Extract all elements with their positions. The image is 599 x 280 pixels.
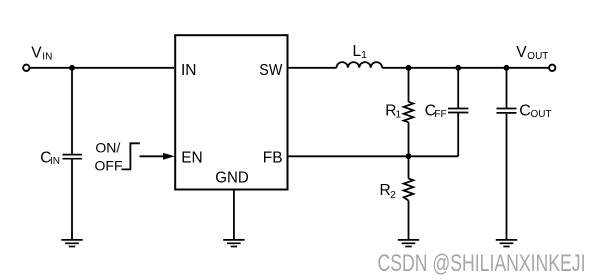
svg-text:C: C — [519, 103, 531, 120]
svg-text:OUT: OUT — [527, 51, 548, 62]
svg-text:IN: IN — [50, 156, 60, 167]
svg-text:OFF: OFF — [95, 157, 123, 173]
svg-text:L: L — [353, 43, 362, 60]
svg-text:CSDN @SHILIANXINKEJI: CSDN @SHILIANXINKEJI — [378, 250, 586, 277]
svg-text:FB: FB — [263, 150, 283, 167]
svg-text:GND: GND — [215, 169, 249, 186]
svg-text:1: 1 — [396, 110, 402, 121]
svg-text:ON/: ON/ — [95, 140, 120, 156]
svg-text:SW: SW — [259, 62, 282, 79]
svg-text:R: R — [380, 182, 391, 199]
svg-text:1: 1 — [361, 50, 367, 61]
svg-text:2: 2 — [390, 190, 396, 201]
svg-text:IN: IN — [42, 52, 52, 63]
svg-text:EN: EN — [181, 150, 203, 167]
svg-text:FF: FF — [434, 109, 446, 120]
svg-text:OUT: OUT — [531, 109, 552, 120]
svg-text:V: V — [31, 45, 42, 62]
svg-text:V: V — [516, 44, 527, 61]
svg-text:IN: IN — [181, 62, 197, 79]
